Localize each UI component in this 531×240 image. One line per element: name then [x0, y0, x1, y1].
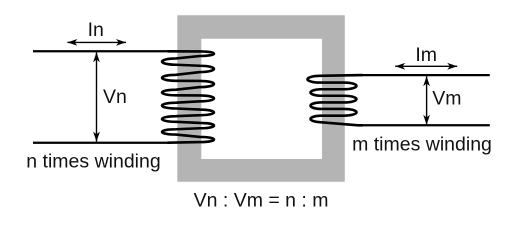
current arrow In: [67, 39, 126, 46]
transformer core (square ring): [177, 15, 344, 182]
svg-text:Vm: Vm: [432, 88, 461, 110]
svg-text:Vn: Vn: [103, 86, 127, 108]
wire: bottom-right lead: [360, 124, 490, 126]
svg-text:Vn : Vm = n : m: Vn : Vm = n : m: [194, 190, 329, 212]
voltage arrow Vn: [93, 52, 100, 141]
current arrow Im: [395, 63, 457, 70]
wire: top-left lead: [33, 50, 170, 52]
svg-text:Im: Im: [415, 44, 437, 66]
secondary winding Lm (m turns, right leg): [308, 75, 363, 125]
voltage arrow Vm: [423, 76, 430, 125]
primary winding Ln (n turns, left leg): [162, 51, 214, 142]
svg-text:n times winding: n times winding: [26, 151, 160, 173]
wire: top-right lead: [360, 74, 490, 76]
svg-text:In: In: [88, 19, 104, 41]
svg-text:m times winding: m times winding: [352, 134, 492, 156]
wire: bottom-left lead: [33, 142, 170, 144]
